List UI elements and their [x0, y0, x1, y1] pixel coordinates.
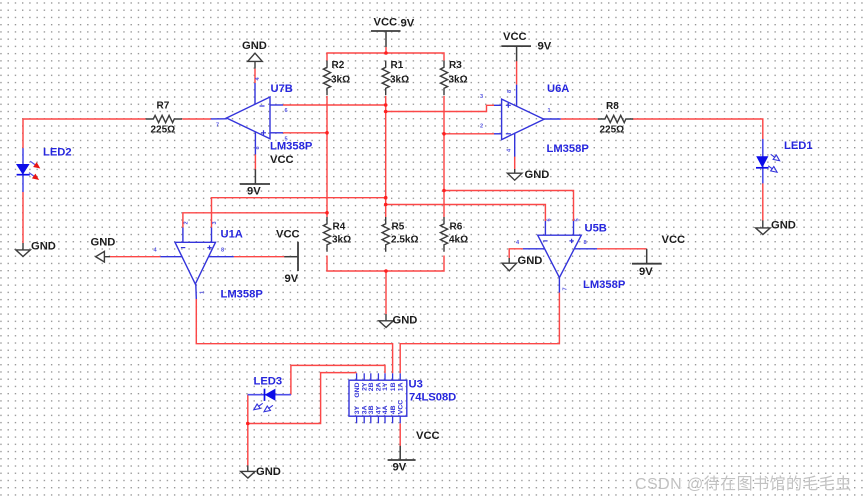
wire U6A pin4 to GND: [514, 156, 516, 169]
svg-text:GND: GND: [525, 169, 550, 181]
node ground bus center: [384, 269, 388, 273]
svg-text:6: 6: [285, 108, 288, 114]
wire U6A output to R8: [561, 118, 598, 120]
wire LED1 cathode to ground: [762, 183, 764, 220]
wire U1A output to U3 pin 1B: [196, 299, 392, 373]
svg-text:U6A: U6A: [547, 83, 569, 95]
wire node R3/R6 to U5B non-inverting input: [444, 191, 574, 222]
svg-text:VCC: VCC: [374, 17, 398, 29]
op-amp U7B: [211, 83, 283, 155]
svg-text:3kΩ: 3kΩ: [331, 75, 350, 86]
svg-text:U1A: U1A: [221, 229, 243, 241]
svg-text:LED2: LED2: [43, 147, 72, 159]
wire U1A pin4 to GND arrow: [110, 256, 160, 258]
power VCC bar top center: [371, 30, 401, 32]
svg-text:LED3: LED3: [254, 376, 283, 388]
svg-text:VCC: VCC: [276, 229, 300, 241]
wire U5B pin4 to GND: [509, 249, 523, 259]
svg-text:VCC: VCC: [270, 154, 294, 166]
resistor R8: [598, 115, 634, 122]
node R1 bottom / U7B in-: [384, 103, 388, 107]
svg-text:225Ω: 225Ω: [600, 125, 625, 136]
svg-text:3: 3: [480, 94, 483, 100]
ground (left arrow) at U1A pin4: [104, 256, 110, 258]
svg-text:6: 6: [547, 218, 553, 221]
svg-text:3Y: 3Y: [354, 405, 361, 414]
wire node R1 column R1 to R5: [385, 96, 387, 217]
svg-text:8: 8: [584, 240, 587, 246]
svg-text:1: 1: [548, 108, 551, 114]
svg-text:VCC: VCC: [503, 31, 527, 43]
svg-text:VCC: VCC: [397, 400, 404, 414]
op-amp U5B: [523, 221, 597, 293]
svg-text:7: 7: [216, 123, 219, 129]
wire node R2 column R2 to R4: [326, 96, 328, 217]
ground below LED2: [22, 243, 24, 250]
svg-text:GND: GND: [518, 255, 543, 267]
power VCC bar right of U5B: [632, 263, 662, 265]
svg-text:R2: R2: [332, 60, 345, 71]
svg-text:U3: U3: [409, 379, 423, 391]
resistor R1: [382, 61, 389, 96]
LED D1 symbol: [756, 139, 781, 183]
svg-text:R7: R7: [157, 101, 170, 112]
svg-text:74LS08D: 74LS08D: [409, 392, 456, 404]
svg-text:GND: GND: [31, 241, 56, 253]
power VCC bar right of U1A: [297, 242, 299, 271]
svg-text:GND: GND: [256, 466, 281, 478]
power VCC bar below U3: [388, 459, 416, 461]
svg-text:GND: GND: [91, 237, 116, 249]
node R3/R6 to U5B: [442, 189, 446, 193]
wire LED3 cathode node down: [247, 395, 249, 466]
node R1/R5 to U1A pin3: [384, 196, 388, 200]
wire U7B inverting input to node R1: [283, 104, 386, 106]
svg-text:3B: 3B: [368, 405, 375, 414]
svg-text:GND: GND: [393, 315, 418, 327]
wire U1A pin8 to VCC bar: [234, 256, 285, 258]
svg-text:9V: 9V: [247, 186, 261, 198]
svg-text:4A: 4A: [382, 405, 389, 414]
LED D3 symbol: [248, 389, 291, 414]
svg-text:9V: 9V: [393, 462, 407, 474]
svg-text:U7B: U7B: [271, 83, 293, 95]
svg-text:3kΩ: 3kΩ: [332, 235, 351, 246]
svg-text:GND: GND: [242, 40, 267, 52]
svg-text:R8: R8: [606, 101, 619, 112]
svg-text:LM358P: LM358P: [583, 279, 626, 291]
resistor R6: [440, 217, 447, 252]
svg-text:4B: 4B: [390, 405, 397, 414]
svg-text:9V: 9V: [538, 41, 552, 53]
svg-text:225Ω: 225Ω: [151, 125, 176, 136]
svg-text:5: 5: [285, 137, 288, 143]
resistor R7: [146, 115, 182, 122]
svg-text:R5: R5: [392, 222, 405, 233]
wire R7 left to LED2 anode: [23, 119, 146, 148]
svg-text:LED1: LED1: [784, 140, 813, 152]
svg-text:GND: GND: [354, 382, 361, 397]
ground below LED1: [762, 220, 764, 228]
svg-text:8: 8: [507, 90, 513, 93]
wire U1A pin2 to node R2/R4: [183, 213, 327, 228]
svg-text:9V: 9V: [639, 266, 653, 278]
svg-text:8: 8: [221, 248, 224, 254]
wire R7 right to U7B output: [182, 118, 211, 120]
power VCC bar below U7B: [240, 183, 270, 185]
wire U1A pin3 to node R1/R5: [212, 198, 386, 228]
svg-text:2B: 2B: [368, 382, 375, 391]
svg-text:1B: 1B: [390, 382, 397, 391]
ground below U6A: [514, 169, 516, 173]
ground at U5B pin4: [508, 258, 510, 263]
wire LED3 node to U3 GND pin: [248, 373, 357, 424]
svg-text:R6: R6: [450, 222, 463, 233]
svg-text:R1: R1: [391, 60, 404, 71]
wire top bus R2-R1-R3: [327, 53, 444, 61]
LED D2 symbol: [16, 148, 42, 192]
svg-text:8: 8: [255, 146, 261, 149]
svg-text:3: 3: [212, 221, 218, 224]
wire node R3 to U6A inverting input: [444, 133, 494, 135]
svg-text:2: 2: [184, 221, 190, 224]
wire node R1/R5 to U5B inverting input: [386, 205, 546, 222]
ground (up arrow) above U7B: [254, 62, 256, 69]
svg-text:7: 7: [563, 287, 569, 290]
wire U5B output to U3 pin 1A: [400, 293, 559, 374]
resistor R4: [323, 217, 330, 252]
svg-text:LM358P: LM358P: [221, 289, 264, 301]
node R1/R5 to U5B in-: [384, 203, 388, 207]
node LED3 cathode: [246, 422, 250, 426]
svg-text:9V: 9V: [285, 273, 299, 285]
svg-text:2: 2: [480, 124, 483, 130]
svg-text:1: 1: [200, 291, 206, 294]
power VCC bar above U6A: [501, 45, 531, 47]
op-amp U1A: [160, 228, 233, 300]
resistor R2: [323, 61, 330, 96]
svg-text:R3: R3: [449, 60, 462, 71]
svg-text:GND: GND: [771, 220, 796, 232]
wire U5B pin8 to VCC bar: [597, 248, 647, 250]
IC U3 74LS08D: [349, 373, 407, 423]
svg-text:9V: 9V: [401, 18, 415, 30]
wire U3 pin 1Y to LED3 anode: [291, 365, 385, 394]
node R3 bottom / U6A in-: [442, 132, 446, 136]
svg-text:VCC: VCC: [662, 234, 686, 246]
wire LED2 cathode to ground: [22, 192, 24, 244]
svg-text:4kΩ: 4kΩ: [449, 235, 468, 246]
resistor R3: [440, 61, 447, 96]
svg-text:1Y: 1Y: [382, 382, 389, 391]
op-amp U6A: [494, 85, 561, 157]
U3 top pin names: [354, 382, 405, 398]
svg-text:R4: R4: [333, 222, 346, 233]
wire U7B non-inverting input to node R2: [283, 132, 327, 134]
wire node R3 column R3 to R6: [443, 96, 445, 217]
svg-text:U5B: U5B: [585, 223, 607, 235]
wire R8 to LED1 anode: [632, 119, 762, 139]
svg-text:3kΩ: 3kΩ: [449, 75, 468, 86]
node R2/R4 to U1A pin2: [325, 211, 329, 215]
svg-text:LM358P: LM358P: [270, 141, 313, 153]
wire R4 bottom to ground bus: [327, 256, 444, 272]
wire node R1 to U6A non-inverting input: [386, 105, 494, 111]
junction node dots: [246, 51, 446, 425]
node R1 / U6A in+: [384, 110, 388, 114]
wire R5 bottom to GND: [385, 271, 387, 314]
node R2 bottom / U7B in+: [325, 131, 329, 135]
node VCC top bus: [384, 51, 388, 55]
svg-text:VCC: VCC: [416, 430, 440, 442]
U3 bottom pin names: [354, 400, 405, 414]
wire U7B pin8 to VCC bar: [254, 154, 256, 169]
wire U7B pin4 to GND: [254, 69, 256, 83]
wire U6A pin8 to VCC stem: [516, 61, 518, 85]
svg-text:LM358P: LM358P: [547, 143, 590, 155]
wire U3 VCC pin to bar: [399, 423, 401, 446]
svg-text:5: 5: [575, 218, 581, 221]
svg-text:CSDN @待在图书馆的毛毛虫: CSDN @待在图书馆的毛毛虫: [635, 475, 852, 493]
resistor R5: [382, 217, 389, 252]
svg-text:1A: 1A: [397, 382, 404, 391]
svg-text:2.5kΩ: 2.5kΩ: [391, 235, 418, 246]
ground below LED3: [247, 465, 249, 471]
svg-text:3kΩ: 3kΩ: [390, 75, 409, 86]
wire VCC stem to top bus: [385, 47, 387, 53]
ground below R5: [385, 314, 387, 321]
